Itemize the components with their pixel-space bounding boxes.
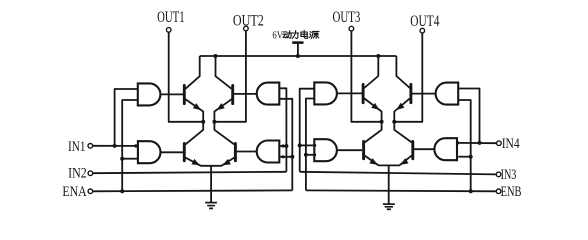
junction IN2 to U1D [284, 144, 288, 148]
wire right emitter bus [378, 164, 399, 166]
junction Q5 collector on rail [376, 54, 380, 58]
AND gate U1D [257, 141, 280, 163]
wire OUT1 vertical [168, 32, 170, 122]
transistor Q4 emitter [222, 158, 235, 166]
junction IN1 at gate U1B [134, 144, 137, 147]
junction IN1 riser [113, 144, 117, 148]
transistor Q1 emitter arrow [193, 103, 203, 113]
wire U2A output to Q5 base [337, 92, 362, 94]
wire IN3 riser [300, 89, 315, 172]
wire U1A output to Q1 base [160, 93, 183, 95]
junction IN3 at gate U2B edge [313, 144, 316, 147]
terminal IN2 [88, 171, 93, 176]
wire IN4 line [457, 142, 497, 144]
wire OUT3 vertical [350, 31, 352, 122]
wire ENB stub to U2D [458, 156, 471, 158]
power supply 6V terminal bar [292, 41, 303, 44]
transistor Q6 emitter arrow [369, 158, 379, 167]
transistor Q3 collector [216, 56, 232, 89]
AND gate U2B [314, 139, 337, 161]
transistor Q6 base bar [362, 142, 365, 159]
transistor Q8 emitter [399, 156, 411, 166]
junction ENA at gate U1D edge [281, 155, 284, 158]
terminal OUT1 [166, 28, 171, 33]
transistor Q1 collector [185, 56, 199, 89]
ground right block [383, 203, 395, 205]
junction ENA riser left [120, 189, 124, 193]
junction ENB to U2B [304, 153, 308, 157]
transistor Q2 emitter [185, 158, 200, 166]
AND gate U1C [257, 83, 280, 105]
wire IN2 line [93, 172, 287, 173]
terminal OUT4 [420, 28, 425, 33]
junction ENB to U2D [469, 155, 473, 159]
wire IN3 line [300, 172, 497, 175]
wire OUT3 to node C [351, 121, 382, 123]
AND gate U2D [434, 138, 457, 160]
transistor Q2 collector [185, 122, 203, 145]
transistor Q4 emitter arrow [221, 159, 231, 168]
transistor Q7 emitter arrow [394, 103, 404, 113]
junction ENA to U1B [120, 157, 124, 161]
transistor Q1 emitter [185, 99, 203, 122]
terminal OUT2 [244, 26, 249, 31]
wire ENA line [93, 189, 293, 192]
transistor Q8 base bar [411, 142, 414, 159]
wire 6V supply stem [297, 43, 299, 56]
node D junction [392, 120, 396, 124]
transistor Q4 collector [214, 122, 234, 145]
transistor Q5 emitter arrow [371, 103, 381, 113]
svg-text:ENB: ENB [501, 184, 522, 200]
wire U2C output to Q7 base [412, 93, 436, 95]
svg-text:6V: 6V [272, 30, 283, 41]
power supply label CJK dian [301, 30, 308, 38]
transistor Q4 base bar [234, 144, 237, 161]
svg-text:IN2: IN2 [68, 166, 87, 182]
junction Q3 collector on rail [214, 54, 218, 58]
wire ENB line [306, 189, 497, 192]
transistor Q7 emitter [394, 98, 410, 121]
terminal IN3 [496, 172, 501, 177]
wire IN3 stub to U2B [300, 144, 315, 146]
transistor Q6 collector [365, 122, 382, 143]
wire IN2 riser [279, 88, 286, 172]
junction ENA to U1D [290, 155, 294, 159]
terminal ENA [88, 189, 93, 194]
power supply label CJK yuan [310, 31, 319, 38]
svg-text:IN1: IN1 [68, 139, 86, 155]
transistor Q5 collector [364, 56, 378, 88]
wire ENA riser to U1A [122, 100, 138, 191]
transistor Q3 emitter [214, 99, 231, 122]
transistor Q2 base bar [183, 144, 186, 161]
wire +6V rail [200, 55, 397, 57]
AND gate U1B [138, 141, 161, 163]
wire IN1 line [93, 145, 138, 147]
wire ENB stub to U2B [306, 154, 314, 156]
junction IN4 at gate U2D edge [456, 141, 459, 144]
svg-text:OUT1: OUT1 [157, 9, 185, 26]
wire ENA riser right [279, 99, 292, 191]
wire ENB riser left [306, 99, 314, 191]
wire IN4 riser to U2C [458, 89, 479, 143]
wire OUT2 vertical [245, 31, 247, 122]
junction ENB at gate U2B edge [313, 153, 316, 156]
wire left ground stem [210, 166, 212, 202]
terminal IN4 [497, 141, 502, 146]
svg-text:OUT4: OUT4 [410, 13, 439, 30]
junction IN3 to U2B [298, 143, 302, 147]
node C junction [380, 120, 384, 124]
svg-text:ENA: ENA [62, 184, 87, 200]
wire OUT4 vertical [421, 33, 423, 122]
svg-text:OUT3: OUT3 [333, 9, 361, 26]
transistor Q3 emitter arrow [215, 103, 225, 113]
AND gate U2C [436, 83, 459, 105]
svg-text:IN4: IN4 [502, 136, 520, 152]
power supply label CJK li [292, 31, 299, 39]
wire OUT4 to node D [394, 121, 423, 123]
terminal OUT3 [349, 26, 354, 31]
wire U1C output to Q3 base [234, 93, 257, 95]
transistor Q5 emitter [364, 98, 381, 121]
junction IN4 riser [478, 141, 482, 145]
wire U1B output to Q2 base [160, 151, 183, 153]
wire OUT2 to node B [214, 121, 246, 123]
terminal IN1 [88, 144, 93, 149]
transistor Q6 emitter [365, 156, 379, 166]
wire U2D output to Q8 base [414, 148, 435, 150]
wire U1D output to Q4 base [237, 151, 258, 153]
transistor Q7 base bar [409, 85, 412, 103]
node B junction [212, 120, 216, 124]
node A junction [201, 120, 205, 124]
transistor Q8 collector [394, 122, 411, 143]
transistor Q7 collector [396, 56, 409, 88]
wire IN1 riser to U1A [115, 89, 138, 146]
junction 6V on +rail [296, 54, 300, 58]
wire ENA stub to U1D [279, 156, 292, 158]
junction IN2 at gate U1D edge [281, 144, 284, 147]
power supply label CJK dong [283, 31, 292, 38]
svg-text:IN3: IN3 [501, 167, 517, 183]
wire IN2 stub to U1D [279, 145, 286, 147]
wire ENA stub to U1B [122, 158, 138, 160]
wire ENB riser to U2C [458, 100, 471, 191]
transistor Q3 base bar [231, 85, 234, 103]
junction ENB riser right [469, 189, 473, 193]
AND gate U2A [314, 82, 337, 104]
transistor Q1 base bar [183, 85, 186, 103]
terminal ENB [496, 189, 501, 194]
wire U2B output to Q6 base [337, 149, 362, 151]
ground left block [205, 202, 217, 204]
wire left emitter bus [201, 165, 222, 167]
wire right ground stem [388, 165, 390, 203]
transistor Q5 base bar [362, 85, 365, 103]
AND gate U1A [138, 83, 161, 105]
transistor Q8 emitter arrow [399, 158, 409, 167]
transistor Q2 emitter arrow [191, 159, 201, 168]
wire OUT1 to node A [168, 121, 203, 123]
